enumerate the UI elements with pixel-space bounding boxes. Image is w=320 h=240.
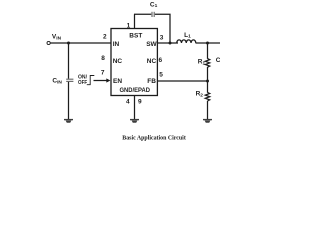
wire: R1 to FB node — [207, 67, 209, 93]
svg-text:NC: NC — [147, 58, 157, 65]
svg-text:Basic Application Circuit: Basic Application Circuit — [122, 135, 186, 142]
capacitor C1 — [152, 12, 154, 17]
wire: GND pin to ground — [134, 96, 136, 120]
svg-text:4: 4 — [126, 98, 130, 105]
EN drive arrow — [94, 78, 111, 82]
svg-text:CO: CO — [216, 57, 220, 65]
ground (input) — [64, 119, 73, 123]
wire: Vin to IN pin — [50, 42, 111, 44]
capacitor CIN — [66, 79, 73, 81]
svg-text:GND/EPAD: GND/EPAD — [120, 87, 151, 94]
wire: bootstrap top left segment — [134, 13, 151, 15]
ground (output) — [203, 119, 212, 123]
resistor R2 — [205, 92, 209, 101]
svg-text:5: 5 — [159, 72, 163, 79]
svg-text:OFF: OFF — [78, 80, 88, 86]
wire: R2 to ground — [207, 101, 209, 119]
svg-text:EN: EN — [113, 78, 122, 85]
svg-text:2: 2 — [103, 33, 107, 40]
svg-text:FB: FB — [147, 78, 156, 85]
wire: output node down to R1 — [207, 43, 209, 59]
svg-text:SW: SW — [146, 41, 157, 48]
node SW — [169, 42, 172, 45]
IC U1 — [111, 29, 157, 96]
terminal Vin — [47, 41, 50, 44]
svg-text:1: 1 — [127, 23, 131, 30]
svg-text:6: 6 — [159, 57, 163, 64]
wire: CIN to ground — [68, 82, 70, 119]
svg-text:3: 3 — [160, 35, 164, 42]
step waveform symbol — [87, 76, 95, 85]
wire: bootstrap top right segment down to SW node — [155, 14, 170, 43]
svg-text:BST: BST — [129, 33, 142, 40]
svg-text:8: 8 — [101, 55, 105, 62]
svg-text:9: 9 — [138, 98, 142, 105]
wire: inductor to output node and edge — [196, 42, 221, 44]
node FB — [206, 80, 209, 83]
node output — [206, 42, 209, 45]
ground (IC) — [130, 119, 139, 123]
svg-text:NC: NC — [113, 58, 123, 65]
resistor R1 — [205, 59, 209, 68]
svg-text:7: 7 — [101, 69, 105, 76]
wire: input node down to CIN — [68, 43, 70, 79]
wire: BST pin up — [134, 14, 136, 28]
wire: SW pin to node — [157, 42, 178, 44]
node A: input junction — [67, 42, 70, 45]
svg-text:IN: IN — [113, 41, 120, 48]
inductor L1 — [177, 40, 196, 43]
wire: FB pin to node — [157, 80, 207, 82]
